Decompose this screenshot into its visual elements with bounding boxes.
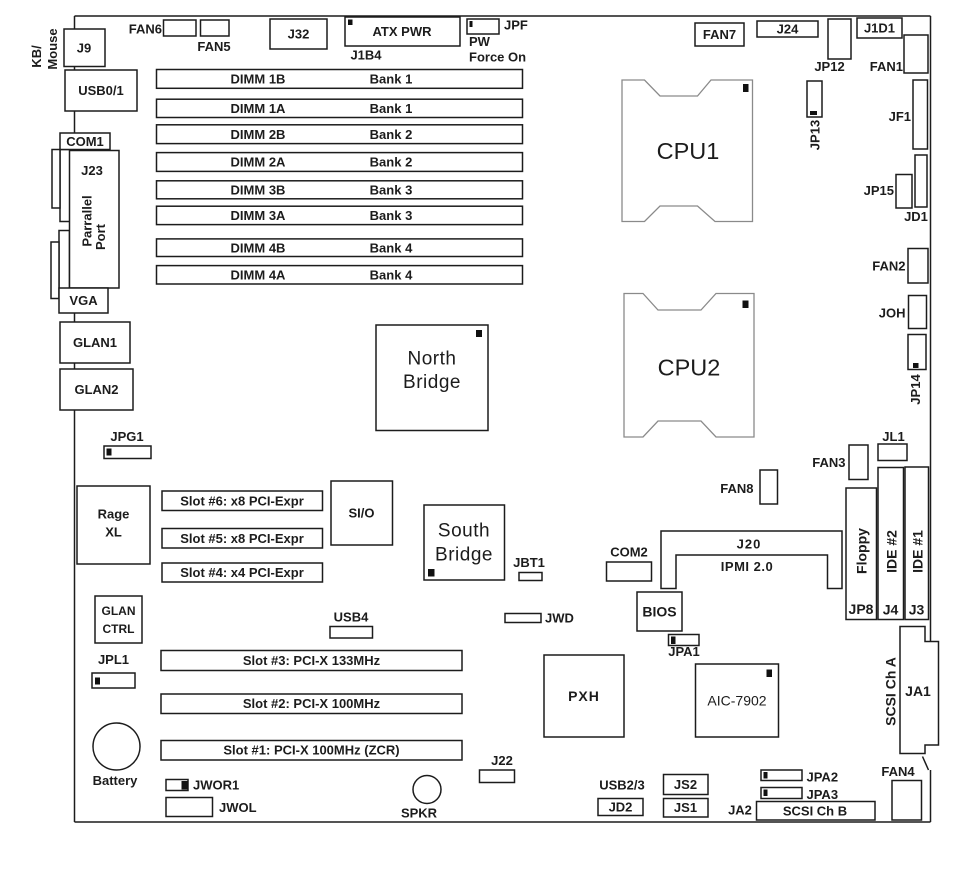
connector J32 xyxy=(270,19,327,49)
connector ATX PWR J1B4 xyxy=(345,17,460,46)
svg-text:JPG1: JPG1 xyxy=(110,429,143,444)
svg-text:JD1: JD1 xyxy=(904,209,928,224)
svg-text:PW: PW xyxy=(469,34,491,49)
svg-text:FAN2: FAN2 xyxy=(872,259,905,274)
connector JD1 xyxy=(915,155,927,207)
svg-text:JA1: JA1 xyxy=(905,683,931,699)
board outline bottom edge xyxy=(75,821,931,823)
svg-text:JF1: JF1 xyxy=(889,109,911,124)
svg-text:BIOS: BIOS xyxy=(642,604,676,620)
connector Floppy JP8 xyxy=(846,488,877,620)
svg-text:J4: J4 xyxy=(883,602,899,618)
svg-text:Bank 1: Bank 1 xyxy=(370,72,413,87)
svg-text:Bank 4: Bank 4 xyxy=(370,240,413,255)
connector J1D1 xyxy=(857,18,902,38)
svg-text:Floppy: Floppy xyxy=(853,528,869,574)
DIMM slot 2A xyxy=(157,153,523,172)
svg-text:DIMM 4A: DIMM 4A xyxy=(231,267,287,282)
speaker SPKR xyxy=(413,776,441,804)
svg-text:XL: XL xyxy=(105,525,122,540)
jumper JP14 xyxy=(908,335,926,370)
svg-text:Mouse: Mouse xyxy=(45,28,60,69)
jumper JPF xyxy=(467,19,499,34)
svg-text:North: North xyxy=(408,349,457,370)
svg-text:JWOL: JWOL xyxy=(219,800,257,815)
svg-text:J20: J20 xyxy=(737,537,762,552)
svg-text:South: South xyxy=(438,521,490,542)
jumper JS1 xyxy=(664,799,709,818)
slot #1 PCI-X 100MHz ZCR xyxy=(161,741,462,761)
svg-text:J22: J22 xyxy=(491,753,513,768)
svg-text:FAN7: FAN7 xyxy=(703,27,736,42)
jumper JPA2 xyxy=(761,770,802,781)
connector COM1 xyxy=(60,133,110,150)
svg-text:J32: J32 xyxy=(288,27,310,42)
svg-text:JPA2: JPA2 xyxy=(807,770,839,785)
svg-text:IPMI 2.0: IPMI 2.0 xyxy=(721,559,773,574)
board outline right edge lower segment xyxy=(930,770,932,822)
svg-text:Bank 4: Bank 4 xyxy=(370,267,413,282)
svg-text:Bank 2: Bank 2 xyxy=(370,155,413,170)
slot #2 PCI-X 100MHz xyxy=(161,694,462,714)
chip SI/O xyxy=(331,481,393,545)
DIMM slot 4B xyxy=(157,239,523,257)
svg-text:USB0/1: USB0/1 xyxy=(78,83,124,98)
svg-text:Slot #4: x4 PCI-Expr: Slot #4: x4 PCI-Expr xyxy=(180,565,304,580)
svg-text:J9: J9 xyxy=(77,41,91,56)
COM1 connector body xyxy=(60,150,70,222)
svg-text:JPL1: JPL1 xyxy=(98,652,129,667)
svg-text:GLAN: GLAN xyxy=(102,604,136,618)
svg-text:J1D1: J1D1 xyxy=(864,21,895,36)
svg-text:PXH: PXH xyxy=(568,688,600,704)
DIMM slot 2B xyxy=(157,125,523,144)
svg-text:JA2: JA2 xyxy=(728,803,752,818)
svg-text:JPA3: JPA3 xyxy=(807,787,839,802)
DIMM slot 3A xyxy=(157,206,523,224)
board edge notch diagonal near JA1 xyxy=(923,757,929,771)
svg-text:DIMM 2B: DIMM 2B xyxy=(231,127,286,142)
chip GLAN CTRL xyxy=(95,596,142,643)
svg-text:DIMM 1A: DIMM 1A xyxy=(231,101,287,116)
fan header FAN6 box xyxy=(164,20,197,36)
chip AIC-7902 xyxy=(696,664,779,737)
connector VGA xyxy=(59,288,108,313)
svg-text:JP15: JP15 xyxy=(864,183,894,198)
svg-text:AIC-7902: AIC-7902 xyxy=(707,693,766,709)
DIMM slot 1A xyxy=(157,99,523,117)
svg-text:FAN4: FAN4 xyxy=(881,764,915,779)
CPU1 socket xyxy=(622,80,753,222)
svg-text:Bank 3: Bank 3 xyxy=(370,182,413,197)
svg-text:ATX PWR: ATX PWR xyxy=(373,24,433,39)
connector J23 parallel port xyxy=(70,151,120,289)
svg-text:SCSI Ch B: SCSI Ch B xyxy=(783,804,847,819)
svg-text:JP8: JP8 xyxy=(849,601,874,617)
svg-text:GLAN2: GLAN2 xyxy=(74,382,118,397)
svg-text:Bridge: Bridge xyxy=(403,372,461,393)
chip South Bridge xyxy=(424,505,505,580)
connector J9 xyxy=(64,29,105,67)
board outline left edge xyxy=(74,16,76,822)
svg-text:JP13: JP13 xyxy=(808,120,823,150)
DIMM slot 4A xyxy=(157,266,523,284)
svg-text:DIMM 4B: DIMM 4B xyxy=(231,240,286,255)
svg-text:JL1: JL1 xyxy=(882,429,904,444)
connector GLAN2 xyxy=(60,369,133,410)
battery xyxy=(93,723,140,770)
svg-text:Slot #2: PCI-X 100MHz: Slot #2: PCI-X 100MHz xyxy=(243,696,381,711)
connector USB0/1 xyxy=(65,70,137,111)
fan header FAN1 xyxy=(904,35,928,73)
svg-text:JD2: JD2 xyxy=(609,800,633,815)
svg-text:JS2: JS2 xyxy=(674,777,697,792)
svg-text:Port: Port xyxy=(93,223,108,250)
svg-text:CTRL: CTRL xyxy=(103,622,135,636)
jumper JP15 xyxy=(896,175,912,209)
jumper JPA3 xyxy=(761,788,802,799)
slot #3 PCI-X 133MHz xyxy=(161,651,462,671)
DIMM slot 3B xyxy=(157,181,523,199)
svg-text:KB/: KB/ xyxy=(29,45,44,68)
jumper JWOR1 xyxy=(166,780,188,791)
chip North Bridge xyxy=(376,325,488,431)
svg-text:COM2: COM2 xyxy=(610,545,648,560)
chip Rage XL xyxy=(77,486,150,564)
svg-text:Battery: Battery xyxy=(93,773,139,788)
jumper JWD xyxy=(505,614,541,623)
svg-text:J23: J23 xyxy=(81,163,103,178)
svg-text:CPU2: CPU2 xyxy=(658,355,721,381)
fan header FAN7 xyxy=(695,23,744,46)
svg-text:COM1: COM1 xyxy=(66,134,104,149)
svg-text:J3: J3 xyxy=(909,602,925,618)
svg-text:CPU1: CPU1 xyxy=(657,138,720,164)
board outline top edge xyxy=(75,15,931,17)
fan header FAN2 xyxy=(908,249,928,284)
fan header FAN5 box xyxy=(201,20,230,36)
svg-text:Rage: Rage xyxy=(98,507,130,522)
DIMM slot 1B xyxy=(157,70,523,89)
connector JF1 xyxy=(913,80,928,149)
svg-text:SPKR: SPKR xyxy=(401,806,438,821)
svg-text:SCSI Ch A: SCSI Ch A xyxy=(882,657,898,726)
jumper JPA1 xyxy=(669,635,700,646)
jumper JS2 xyxy=(664,775,709,795)
svg-text:Bank 1: Bank 1 xyxy=(370,101,413,116)
svg-text:FAN6: FAN6 xyxy=(129,22,162,37)
jumper JP12 xyxy=(828,19,851,59)
svg-text:J1B4: J1B4 xyxy=(350,48,382,63)
header JOH xyxy=(909,296,927,329)
board outline right edge upper segment xyxy=(930,16,932,642)
VGA D-sub xyxy=(51,242,59,299)
svg-text:JPF: JPF xyxy=(504,18,528,33)
svg-text:J24: J24 xyxy=(777,22,799,37)
svg-text:IDE #2: IDE #2 xyxy=(883,530,899,573)
chip BIOS xyxy=(637,592,682,631)
svg-text:DIMM 2A: DIMM 2A xyxy=(231,155,287,170)
svg-text:FAN5: FAN5 xyxy=(197,39,230,54)
svg-text:FAN1: FAN1 xyxy=(870,59,903,74)
svg-text:Slot #6: x8 PCI-Expr: Slot #6: x8 PCI-Expr xyxy=(180,494,304,509)
svg-text:Bridge: Bridge xyxy=(435,545,493,566)
COM1 D-sub xyxy=(52,150,60,209)
connector JA1 SCSI Ch A xyxy=(900,627,939,754)
svg-text:DIMM 3A: DIMM 3A xyxy=(231,208,287,223)
svg-text:JBT1: JBT1 xyxy=(513,555,545,570)
svg-text:IDE #1: IDE #1 xyxy=(909,530,925,573)
svg-text:VGA: VGA xyxy=(69,293,98,308)
VGA connector body xyxy=(59,231,70,291)
svg-text:USB4: USB4 xyxy=(334,610,369,625)
jumper JP13 xyxy=(807,81,822,117)
svg-text:USB2/3: USB2/3 xyxy=(599,778,645,793)
slot #6 x8 PCI-Expr xyxy=(162,491,323,511)
svg-text:Bank 3: Bank 3 xyxy=(370,208,413,223)
svg-text:Force On: Force On xyxy=(469,50,526,65)
svg-text:JPA1: JPA1 xyxy=(668,644,700,659)
jumper JWOL xyxy=(166,798,213,817)
connector J24 xyxy=(757,21,818,37)
svg-text:SI/O: SI/O xyxy=(348,506,374,521)
connector GLAN1 xyxy=(60,322,130,363)
svg-text:DIMM 1B: DIMM 1B xyxy=(231,72,286,87)
svg-text:Slot #3: PCI-X 133MHz: Slot #3: PCI-X 133MHz xyxy=(243,653,381,668)
connector IDE #1 J3 xyxy=(905,467,929,620)
svg-text:Slot #5: x8 PCI-Expr: Slot #5: x8 PCI-Expr xyxy=(180,531,304,546)
svg-text:JP12: JP12 xyxy=(814,59,844,74)
svg-text:JWD: JWD xyxy=(545,611,574,626)
svg-text:JWOR1: JWOR1 xyxy=(193,778,239,793)
svg-text:Slot #1: PCI-X 100MHz (ZCR): Slot #1: PCI-X 100MHz (ZCR) xyxy=(223,743,399,758)
svg-text:DIMM 3B: DIMM 3B xyxy=(231,182,286,197)
svg-text:FAN3: FAN3 xyxy=(812,455,845,470)
slot #4 x4 PCI-Expr xyxy=(162,563,323,582)
CPU2 socket xyxy=(624,294,754,438)
svg-text:Bank 2: Bank 2 xyxy=(370,127,413,142)
chip PXH xyxy=(544,655,624,737)
svg-text:JS1: JS1 xyxy=(674,800,697,815)
svg-text:FAN8: FAN8 xyxy=(720,481,753,496)
svg-text:JP14: JP14 xyxy=(908,374,923,405)
svg-text:GLAN1: GLAN1 xyxy=(73,335,117,350)
slot #5 x8 PCI-Expr xyxy=(162,529,323,549)
connector IDE #2 J4 xyxy=(878,468,904,620)
connector J20 IPMI 2.0 xyxy=(661,531,842,589)
svg-text:JOH: JOH xyxy=(879,306,906,321)
connector JD2 xyxy=(598,799,643,816)
